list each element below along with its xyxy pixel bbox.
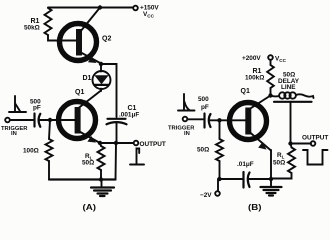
svg-text:50Ω: 50Ω bbox=[197, 147, 209, 154]
wire Q1 emitter column B bbox=[270, 150, 272, 179]
transistor Q2 bbox=[60, 8, 112, 64]
transistor Q1 (A) bbox=[59, 89, 101, 143]
trigger input waveform icon B bbox=[178, 94, 195, 111]
svg-text:LINE: LINE bbox=[281, 84, 296, 91]
capacitor 500 pF (A) bbox=[30, 99, 41, 127]
svg-text:Q1: Q1 bbox=[75, 89, 84, 96]
svg-text:IN: IN bbox=[11, 131, 17, 137]
wire C1/output column down to rail A bbox=[115, 143, 118, 180]
svg-text:50Ω: 50Ω bbox=[273, 160, 285, 167]
node R1 / delay line / Q1 collector B bbox=[268, 93, 272, 97]
resistor R1 50k bbox=[24, 8, 52, 35]
svg-text:Q1: Q1 bbox=[241, 88, 250, 95]
node Q2 emitter / D1 anode bbox=[99, 62, 103, 66]
svg-text:100kΩ: 100kΩ bbox=[245, 75, 264, 82]
resistor 100 ohm bbox=[23, 120, 53, 180]
OUTPUT terminal A bbox=[134, 141, 166, 148]
node RL/output junction B bbox=[288, 141, 292, 145]
capacitor .01uF (B) bbox=[237, 161, 254, 188]
svg-text:−2V: −2V bbox=[200, 192, 212, 199]
delay line shield bar bbox=[274, 101, 312, 103]
node base junction B bbox=[217, 118, 221, 122]
wire bottom rail A bbox=[49, 178, 116, 180]
node Q1 emitter junction A bbox=[98, 141, 102, 145]
svg-text:(B): (B) bbox=[248, 202, 262, 212]
wire top rail A bbox=[48, 7, 133, 9]
diode D1 bbox=[83, 64, 111, 91]
resistor RL 50 ohm (A) bbox=[82, 143, 105, 180]
resistor RL 50 ohm (B) bbox=[271, 144, 295, 179]
wire shield bar to output node B bbox=[290, 102, 292, 144]
wire terminal to capacitor B bbox=[188, 118, 204, 120]
capacitor C1 .001uF bbox=[107, 105, 140, 143]
svg-text:50kΩ: 50kΩ bbox=[24, 25, 40, 32]
svg-text:D1: D1 bbox=[83, 75, 92, 82]
node top rail junction bbox=[98, 5, 102, 9]
-2V terminal bbox=[200, 179, 220, 199]
svg-text:100Ω: 100Ω bbox=[23, 148, 39, 155]
wire capacitor to Q1 base A bbox=[39, 119, 76, 121]
resistor R1 100k (B) bbox=[245, 60, 274, 96]
svg-text:500: 500 bbox=[198, 96, 209, 103]
svg-text:RL: RL bbox=[277, 152, 285, 160]
TRIGGER IN terminal B bbox=[168, 117, 195, 137]
transistor Q1 (B) bbox=[230, 88, 272, 151]
svg-text:OUTPUT: OUTPUT bbox=[140, 141, 166, 148]
svg-text:+200V: +200V bbox=[242, 55, 261, 62]
TRIGGER IN terminal A bbox=[1, 118, 28, 137]
output waveform icon B bbox=[303, 150, 328, 165]
svg-text:.01μF: .01μF bbox=[237, 161, 254, 168]
svg-text:VCC: VCC bbox=[275, 56, 287, 64]
capacitor 500 pF (B) bbox=[198, 96, 211, 128]
svg-text:Q2: Q2 bbox=[102, 36, 111, 43]
svg-text:(A): (A) bbox=[83, 202, 97, 212]
+200V Vcc supply terminal B bbox=[242, 55, 287, 63]
svg-text:OUTPUT: OUTPUT bbox=[302, 135, 328, 142]
node -2V junction B bbox=[217, 177, 221, 181]
wire rail B right segment bbox=[249, 178, 272, 180]
output waveform icon A bbox=[130, 149, 144, 165]
delay line coil 50 ohm bbox=[271, 72, 314, 99]
svg-text:50Ω: 50Ω bbox=[82, 160, 94, 167]
wire capacitor to Q1 base B bbox=[210, 119, 247, 121]
node ground junction B bbox=[269, 177, 273, 181]
svg-text:pF: pF bbox=[33, 105, 41, 112]
node output/C1 junction A bbox=[114, 141, 118, 145]
node ground junction A bbox=[99, 177, 103, 181]
wire terminal to capacitor A bbox=[10, 119, 33, 121]
svg-text:VCC: VCC bbox=[143, 11, 155, 19]
ground symbol B bbox=[261, 179, 282, 196]
wire R1 bottom to Q2 base bbox=[48, 35, 62, 41]
ground symbol A bbox=[91, 180, 114, 197]
resistor 50 ohm (B input) bbox=[197, 120, 223, 179]
trigger input waveform icon A bbox=[9, 96, 26, 112]
svg-text:TRIGGER: TRIGGER bbox=[168, 126, 195, 132]
svg-text:.001μF: .001μF bbox=[119, 112, 139, 119]
wire output A bbox=[100, 142, 133, 144]
wire node to C1 column bbox=[101, 64, 117, 117]
OUTPUT terminal B bbox=[291, 135, 329, 146]
svg-text:IN: IN bbox=[184, 131, 190, 137]
node base junction A bbox=[48, 118, 52, 122]
+150V Vcc supply terminal bbox=[133, 5, 159, 19]
svg-text:pF: pF bbox=[201, 104, 209, 111]
wire rail B left segment bbox=[220, 178, 243, 180]
wire D1 cathode to Q1 collector bbox=[79, 91, 102, 109]
